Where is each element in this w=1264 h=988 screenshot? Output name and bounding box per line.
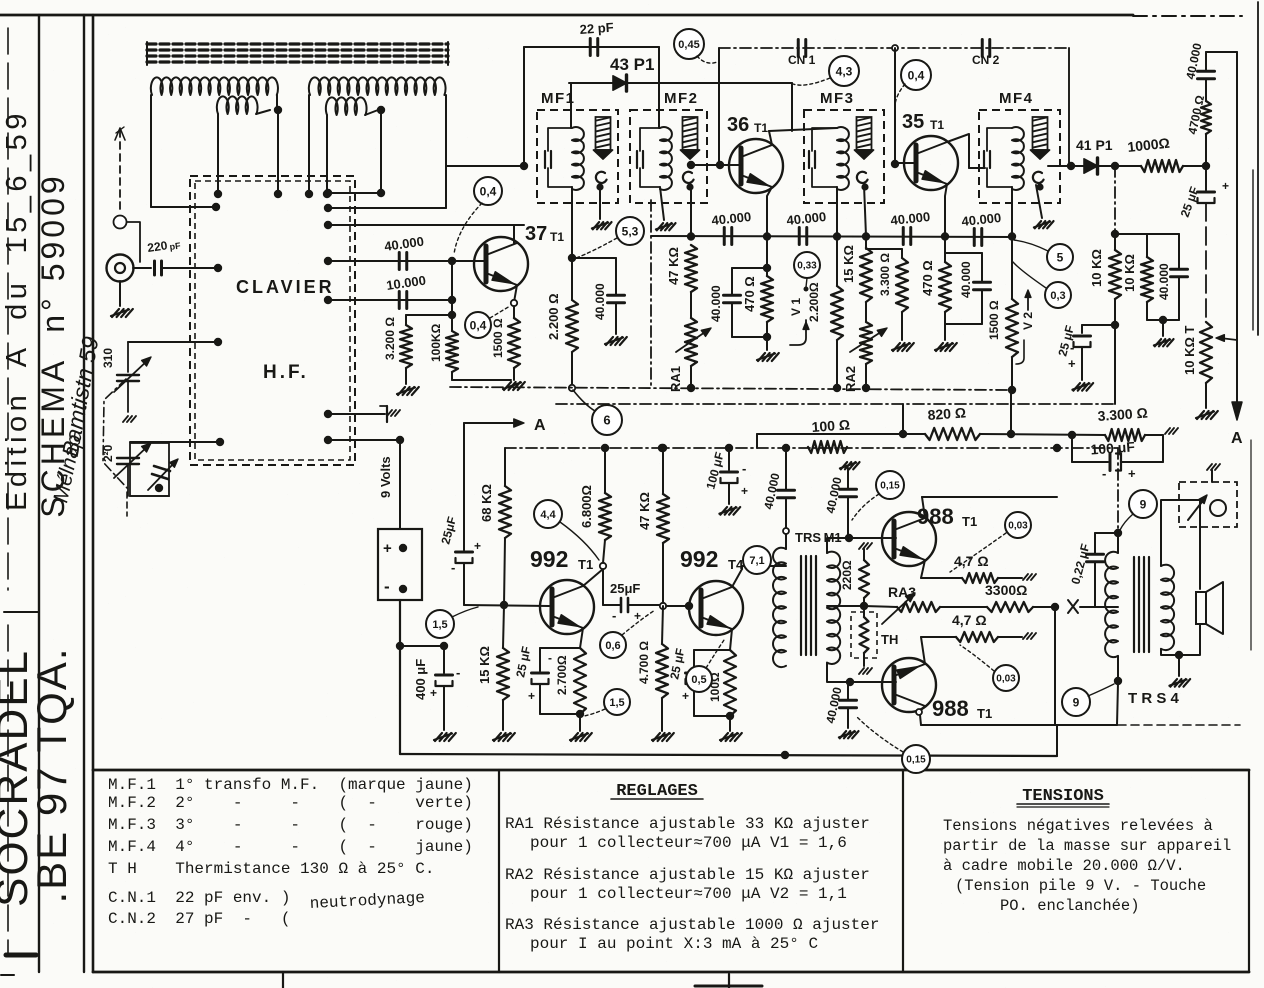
coil L2 (cadre GO) — [309, 77, 446, 95]
svg-text:6: 6 — [603, 413, 610, 428]
svg-text:CN 2: CN 2 — [972, 53, 1000, 67]
capacitor 40.000 (lower 988 base) — [847, 682, 849, 699]
resistor 2.700 ohm + 25uF bypass — [574, 648, 586, 714]
transformer MF4 (dashed box) — [979, 110, 1060, 203]
svg-text:-: - — [1070, 340, 1074, 355]
svg-text:43 P1: 43 P1 — [610, 55, 654, 74]
svg-text:40.000: 40.000 — [709, 285, 723, 322]
wire secondary top to speaker — [1161, 500, 1200, 589]
right paper edge line — [1257, 2, 1259, 335]
wire MF1 coil bottom to 2.200 — [571, 187, 573, 258]
TRS4 box bottom dashes — [1118, 724, 1240, 726]
ferrite rod (dashed bar) — [147, 42, 448, 45]
meter circle 0,6 — [600, 632, 626, 658]
svg-text:1500 Ω: 1500 Ω — [987, 300, 1001, 340]
svg-text:41 P1: 41 P1 — [1076, 137, 1113, 153]
svg-text:A: A — [1231, 430, 1243, 447]
meter circle 0,15 upper — [876, 471, 904, 499]
top-right dash-dot border — [1133, 15, 1242, 17]
svg-text:4,3: 4,3 — [836, 64, 853, 78]
bottom edge smudge — [695, 985, 762, 988]
tuning slug — [1033, 117, 1048, 150]
svg-text:3.200 Ω: 3.200 Ω — [383, 317, 397, 360]
meter circle 5 — [1047, 244, 1073, 270]
wire 1011 to detector bottom — [1010, 390, 1012, 434]
wire socket to cap 220pF — [133, 267, 151, 269]
resistor 100K ohm — [446, 331, 458, 372]
svg-text:220: 220 — [146, 238, 168, 255]
transistor 35T1 — [904, 136, 958, 190]
wire into MF4 — [969, 167, 985, 169]
wire cap to clavier — [162, 267, 218, 269]
cap-coil bracket — [812, 128, 837, 151]
coupling curl — [683, 172, 694, 183]
resistor 10K b — [1115, 233, 1147, 235]
ground AGC — [1162, 320, 1164, 336]
svg-text:4,4: 4,4 — [540, 509, 556, 521]
wire connector to input — [127, 222, 140, 262]
wire to clavier pin — [151, 206, 216, 208]
coupling capacitor 25uF — [603, 604, 620, 606]
primary coil — [660, 127, 672, 190]
svg-text:220Ω: 220Ω — [840, 560, 854, 590]
transformer MF3 (dashed box) — [804, 110, 884, 203]
svg-text:-: - — [384, 577, 390, 596]
diode 41P1 — [1071, 165, 1084, 167]
primary coil — [572, 127, 584, 190]
svg-text:0,15: 0,15 — [880, 481, 900, 492]
svg-text:992: 992 — [680, 546, 718, 572]
bottom edge tick 2 — [728, 974, 730, 988]
detector box bottom rail y388 — [450, 387, 1012, 390]
svg-text:0,5: 0,5 — [691, 674, 706, 686]
svg-text:(Tension pile 9 V. - Touche: (Tension pile 9 V. - Touche — [955, 877, 1206, 895]
svg-text:1,5: 1,5 — [432, 619, 447, 631]
wire 992T1 emitter — [580, 628, 583, 648]
transformer TRS M1 primary — [785, 534, 787, 549]
trimmer1 arrow — [114, 360, 148, 392]
electrolytic 25uF (AF input) — [456, 551, 473, 554]
meter circle 7,1 — [743, 546, 771, 574]
wire 2.200 bottom — [571, 352, 573, 387]
wire x719 down to 36T1 base — [718, 48, 720, 164]
wire x452 junction — [451, 261, 453, 331]
resistor 68K ohm — [504, 448, 506, 486]
svg-text:pF: pF — [169, 240, 182, 252]
right column 40.000 + 4700 — [1206, 51, 1237, 53]
MF2 primary bottom ground — [660, 187, 664, 220]
ground 15K — [494, 733, 501, 741]
dash-dot below trimmer2 — [126, 492, 128, 516]
sidebar line x=93 / schematic left border — [92, 15, 95, 972]
resistor 3.300 ohm — [866, 248, 902, 250]
capacitor 0,22uF — [1095, 532, 1118, 534]
volume feed rail y404 (dash-dot) — [556, 403, 1115, 405]
transformer MF2 (dashed box) — [630, 110, 707, 203]
capacitor 40.000 (upper 988 base) — [841, 462, 847, 469]
TRS M1 core — [800, 556, 802, 655]
wire CV bottom — [130, 495, 169, 497]
resistor 47K ohm — [685, 245, 697, 292]
svg-text:RA2: RA2 — [843, 366, 858, 392]
svg-text:47 KΩ: 47 KΩ — [637, 492, 652, 530]
wire 992T1 collector — [583, 569, 603, 586]
svg-text:V 2: V 2 — [1021, 312, 1035, 330]
capacitor 22pF — [589, 39, 592, 56]
potentiometer RA1 — [685, 318, 697, 366]
wire pin y261 with cap 40.000 — [328, 260, 475, 262]
svg-text:0,15: 0,15 — [906, 755, 926, 766]
wire x524 up to 22pF row — [523, 47, 525, 166]
capacitor 40.000 (AGC) — [1147, 233, 1179, 235]
meter circle 0,15 lower — [902, 745, 930, 773]
svg-text:V 1: V 1 — [789, 298, 803, 316]
transformer TRS M1 secondary — [827, 552, 840, 664]
tuning slug — [683, 117, 698, 150]
wire 47K to RA1 — [690, 292, 692, 318]
meter circle 6 — [592, 405, 622, 435]
meter circle 4,4 — [534, 500, 562, 528]
wire 992T4 collector to TRS M1 — [732, 569, 742, 587]
wire MF4 secondary out — [1048, 165, 1071, 167]
variable capacitor symbol — [148, 461, 176, 490]
wire 988 lower emitter — [921, 637, 925, 664]
resistor 2.200 ohm — [571, 258, 573, 300]
svg-text:+: + — [741, 484, 748, 498]
wire L1b left down — [217, 114, 219, 194]
wire TRS4 top feed — [1117, 448, 1119, 533]
resistor 100 ohm + 25uF bypass — [724, 650, 736, 716]
transistor 992T4 — [689, 581, 743, 635]
transistor 37T1 — [474, 237, 528, 291]
transformer MF1 (dashed box) — [537, 110, 618, 203]
right page border (panels) — [1248, 770, 1250, 972]
capacitor 40.000 c — [902, 228, 905, 245]
svg-text:37: 37 — [525, 223, 547, 245]
svg-text:M.F.1 1° transfo M.F. (marqu: M.F.1 1° transfo M.F. (marque jaune) — [108, 776, 473, 794]
right paper edge mark 2 — [1250, 440, 1252, 650]
wire 36T1 base — [692, 164, 741, 166]
meter circle 9 upper — [1129, 490, 1157, 518]
wire MF2 primary top — [658, 47, 660, 128]
trimmer2 arrow — [114, 446, 148, 478]
svg-text:MF4: MF4 — [999, 90, 1034, 107]
svg-text:T1: T1 — [962, 514, 977, 529]
svg-text:M.F.4 4° - - ( -: M.F.4 4° - - ( - jaune) — [108, 838, 473, 856]
meter circle 1,5 (992T1 emitter) — [604, 689, 630, 715]
wire MF2 secondary down to 47K — [690, 185, 692, 236]
small ground 3.300 — [1165, 428, 1170, 434]
svg-text:10 KΩ: 10 KΩ — [1089, 249, 1104, 287]
svg-text:9 Volts: 9 Volts — [378, 456, 393, 498]
wire CN2 down to detector node — [1068, 48, 1070, 165]
tuning capacitor — [544, 151, 546, 168]
capacitor CN1 — [797, 40, 800, 57]
point X — [1068, 600, 1078, 613]
resistor 4,7 ohm upper — [921, 577, 962, 579]
wire pin y225 (37T1 collector) — [328, 224, 524, 226]
coupling curl — [596, 172, 607, 183]
wire L2b left down — [326, 115, 328, 194]
svg-text:4,7 Ω: 4,7 Ω — [952, 612, 987, 628]
transistor 36T1 — [729, 139, 783, 193]
svg-text:1500 Ω: 1500 Ω — [491, 318, 505, 358]
transformer TRS4 secondary — [1161, 565, 1174, 650]
wire speaker bottom to ground — [1179, 624, 1200, 655]
ground volume — [1205, 383, 1207, 408]
svg-text:à cadre mobile 20.000 Ω/V.: à cadre mobile 20.000 Ω/V. — [943, 857, 1185, 875]
meter circle 0,3 — [1045, 282, 1071, 308]
wire pin y414 with chassis contact — [328, 413, 385, 415]
capacitor 40.000 (base 37T1) — [398, 253, 401, 270]
svg-text:A: A — [534, 417, 546, 434]
wire MF3 secondary down — [861, 183, 868, 190]
svg-text:310: 310 — [101, 348, 115, 368]
svg-text:RA3 Résistance ajustable 1000: RA3 Résistance ajustable 1000 Ω ajuster — [505, 916, 879, 934]
CLAVIER H.F. block (double dashed box) — [190, 176, 355, 465]
wire 988 upper emitter — [921, 560, 925, 578]
wire 35T1 collector — [947, 134, 969, 168]
svg-text:+: + — [634, 609, 641, 623]
node dot — [212, 203, 220, 211]
wire battery minus down — [399, 600, 401, 754]
wire x757 down — [756, 434, 758, 448]
electrolytic 100uF (AF rail) — [728, 448, 730, 470]
wire MF1 primary top — [570, 83, 572, 128]
meter circle 0,4 (37T1 collector) — [474, 177, 502, 205]
wire L1 left end down — [150, 95, 152, 207]
svg-text:TH: TH — [881, 632, 898, 647]
capacitor 40.000 d — [973, 229, 976, 246]
resistor 1000 ohm — [1141, 160, 1183, 172]
volume wiper arrow — [1220, 338, 1237, 340]
ground below socket — [119, 281, 121, 306]
svg-text:68 KΩ: 68 KΩ — [479, 484, 494, 522]
svg-text:TENSIONS: TENSIONS — [1022, 787, 1104, 806]
wire L2b right — [365, 110, 378, 115]
wire MF3 primary top from 36T1 — [791, 83, 793, 131]
wire 36T1 collector up — [769, 131, 772, 145]
svg-text:4,7 Ω: 4,7 Ω — [954, 553, 989, 569]
wire 992T4 collector to primary bottom — [783, 565, 786, 567]
capacitor 40.000 b — [798, 228, 801, 245]
AVC line x1115 (dash-dot) — [1114, 166, 1116, 234]
meter circle 0,03 upper — [1005, 512, 1031, 538]
sidebar bottom dash mark — [6, 953, 36, 958]
wire secondary bottom to 988 base — [827, 663, 850, 682]
diode 43P1 row — [569, 82, 792, 84]
trimmer1 bottom contact — [123, 416, 128, 422]
svg-text:pour 1 collecteur≈700 μA V2 =: pour 1 collecteur≈700 μA V2 = 1,1 — [530, 885, 847, 903]
tuning capacitor — [983, 151, 985, 168]
svg-text:T1: T1 — [550, 230, 564, 244]
cap-coil bracket — [640, 128, 660, 151]
thermistor TH (dashed box) — [851, 612, 877, 658]
wire pin y300 with cap 10.000 — [328, 299, 452, 301]
svg-text:100 Ω: 100 Ω — [811, 416, 851, 435]
svg-text:10 KΩ T: 10 KΩ T — [1182, 326, 1197, 375]
svg-text:9: 9 — [1073, 695, 1080, 709]
svg-text:T H Thermistance 130 Ω à 25: T H Thermistance 130 Ω à 25° C. — [108, 860, 434, 878]
resistor 820 ohm — [925, 428, 980, 440]
svg-text:+: + — [1128, 466, 1136, 481]
sidebar double line x=84 — [83, 15, 85, 972]
wire 100K bottom — [451, 372, 453, 380]
capacitor 10.000 — [398, 292, 401, 309]
svg-text:REGLAGES: REGLAGES — [616, 782, 698, 801]
transistor 988T1 upper — [882, 512, 936, 566]
svg-text:22 pF: 22 pF — [579, 20, 614, 37]
wire 992T4 emitter — [730, 629, 732, 650]
antenna small connector circle — [114, 216, 127, 229]
meter circle 0,5 — [686, 666, 712, 692]
AF rail 100 ohm resistor — [808, 441, 847, 453]
svg-text:MF2: MF2 — [664, 90, 699, 107]
trimmer capacitor 220 — [117, 457, 139, 459]
svg-text:0,03: 0,03 — [1008, 521, 1028, 532]
svg-text:pour 1 collecteur≈700 μA V1 =: pour 1 collecteur≈700 μA V1 = 1,6 — [530, 834, 847, 852]
svg-text:partir de la masse sur apparei: partir de la masse sur appareil — [943, 837, 1231, 855]
wire 988 upper base — [849, 537, 896, 539]
capacitor 40.000 a — [723, 228, 726, 245]
electrolytic 25uF (detector) — [1082, 324, 1115, 326]
wire 470b to ground — [944, 312, 946, 340]
AF bottom rail — [400, 754, 1057, 756]
svg-text:T R S 4: T R S 4 — [1128, 690, 1180, 707]
wire 1000 to right column — [1183, 165, 1206, 167]
wire L2b right down — [380, 110, 382, 193]
wire MF3 coil bottom — [836, 187, 838, 236]
bottom edge tick 1 — [282, 972, 284, 988]
tuning slug — [857, 117, 872, 150]
primary coil — [837, 127, 849, 190]
meter circle 4,3 — [829, 56, 859, 86]
MF4 secondary curl ground — [1036, 183, 1043, 190]
svg-text:M.F.2 2° - - ( -: M.F.2 2° - - ( - verte) — [108, 794, 473, 812]
svg-text:6.800Ω: 6.800Ω — [579, 485, 594, 528]
svg-text:.BE 97 TQA.: .BE 97 TQA. — [28, 647, 75, 904]
svg-text:15 KΩ: 15 KΩ — [841, 245, 856, 283]
resistor 470 ohm with 40.000 bypass — [766, 236, 768, 276]
meter circle 0,03 lower — [993, 665, 1019, 691]
svg-text:47 KΩ: 47 KΩ — [666, 247, 681, 285]
primary coil — [1012, 127, 1024, 190]
detector box left edge — [650, 200, 652, 387]
wire 35T1 base — [895, 162, 916, 164]
meter circle 0,45 — [674, 29, 704, 59]
svg-text:+: + — [1068, 356, 1076, 371]
svg-text:0,4: 0,4 — [908, 68, 925, 82]
resistor 1500 ohm — [513, 306, 515, 318]
panel divider MF/REGLAGES — [498, 770, 500, 972]
svg-text:CN 1: CN 1 — [788, 53, 816, 67]
svg-text:100KΩ: 100KΩ — [429, 323, 443, 362]
svg-text:-: - — [451, 560, 455, 575]
svg-text:+: + — [528, 689, 535, 703]
svg-text:MF3: MF3 — [820, 90, 855, 107]
svg-text:pour I au point X:3 mA à 25° C: pour I au point X:3 mA à 25° C — [530, 935, 818, 953]
svg-text:C.N.1 22 pF env. ): C.N.1 22 pF env. ) — [108, 889, 290, 907]
svg-text:+: + — [682, 689, 689, 703]
svg-text:RA2 Résistance ajustable 15 KΩ: RA2 Résistance ajustable 15 KΩ ajuster — [505, 866, 870, 884]
svg-text:470 Ω: 470 Ω — [742, 276, 757, 312]
resistor 3300 ohm (output) — [987, 602, 1033, 612]
meter circle 9 lower — [1062, 688, 1090, 716]
wire bottom to TRS4 — [1055, 724, 1117, 726]
wire trimmer2 to clavier — [130, 441, 220, 443]
wire 22pF row — [524, 46, 659, 48]
svg-text:-: - — [548, 651, 552, 665]
meter circle 0,33 — [794, 252, 820, 278]
right paper edge mark — [1252, 170, 1254, 330]
bias rail y236 — [651, 236, 1012, 237]
transistor 992T1 — [540, 580, 594, 634]
svg-text:36: 36 — [727, 114, 749, 136]
resistor 220 ohm — [859, 543, 864, 549]
svg-text:Tensions négatives relevées à: Tensions négatives relevées à — [943, 817, 1213, 835]
TRS4 core — [1133, 557, 1135, 652]
svg-text:CLAVIER: CLAVIER — [236, 277, 335, 297]
wire base rail 992T1 — [464, 605, 549, 606]
coil L2b small — [326, 97, 367, 115]
wire x903 rail connector — [902, 404, 904, 434]
wire collector node down — [602, 569, 604, 605]
meter circle 0,4 (35T1) — [901, 60, 931, 90]
sidebar line x=39 — [38, 15, 40, 972]
resistor 15K ohm (992T1) — [503, 605, 504, 648]
svg-text:988: 988 — [917, 504, 954, 529]
resistor 6.800 ohm — [604, 448, 606, 493]
svg-text:4.700 Ω: 4.700 Ω — [637, 641, 651, 684]
svg-text:25μF: 25μF — [610, 581, 640, 596]
electrolytic 100uF (AVC) — [1071, 435, 1073, 462]
diode 43P1 — [613, 76, 627, 90]
transistor 988T1 lower — [882, 658, 936, 712]
svg-text:M.F.3 3° - - ( -: M.F.3 3° - - ( - rouge) — [108, 816, 473, 834]
wire secondary center tap — [827, 605, 864, 607]
wire 36T1 emitter down — [767, 187, 772, 236]
coil L1 (cadre PO) — [151, 77, 278, 95]
meter circle 1,5 (992T1 base) — [426, 610, 454, 638]
svg-text:PO. enclanchée): PO. enclanchée) — [1000, 897, 1140, 915]
svg-text:7,1: 7,1 — [749, 555, 764, 567]
svg-text:2.700Ω: 2.700Ω — [555, 655, 569, 695]
resistor 4.700 ohm — [662, 606, 663, 644]
wire L2 left end down — [308, 95, 310, 194]
wire pin y193 — [328, 192, 381, 194]
svg-text:Edition A du 15_6_59: Edition A du 15_6_59 — [1, 109, 33, 511]
wire x1115 down to volume line — [1114, 325, 1116, 404]
resistor 470 ohm (35T1 emitter) — [944, 237, 946, 262]
wire A down to 25uF — [463, 423, 465, 550]
svg-text:-: - — [742, 461, 746, 476]
svg-text:2.200Ω: 2.200Ω — [807, 282, 821, 322]
svg-text:+: + — [383, 540, 392, 557]
panel divider REGLAGES/TENSIONS — [902, 770, 904, 972]
svg-text:3300Ω: 3300Ω — [985, 582, 1027, 598]
wire X to TRS4 — [1080, 606, 1118, 608]
svg-text:T1: T1 — [578, 557, 593, 572]
MF1 secondary ground — [596, 183, 603, 190]
wire 988 upper collector — [922, 497, 925, 518]
svg-text:H.F.: H.F. — [263, 362, 309, 383]
sidebar column1 divider — [4, 611, 39, 613]
svg-text:+: + — [474, 539, 481, 553]
svg-text:-: - — [456, 665, 460, 680]
svg-text:40.000: 40.000 — [959, 261, 973, 298]
panels top border — [93, 769, 1249, 772]
svg-text:2²0: 2²0 — [101, 444, 115, 462]
